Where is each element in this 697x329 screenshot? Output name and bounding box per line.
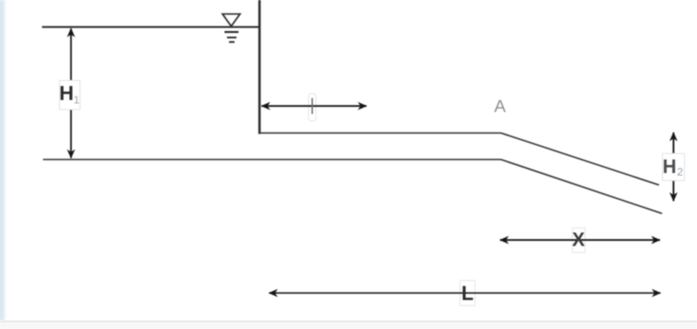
svg-text:A: A <box>494 96 506 116</box>
l label box <box>309 94 317 122</box>
svg-text:1: 1 <box>73 95 79 107</box>
bottom pale band <box>0 323 697 329</box>
l label glyph <box>311 98 313 114</box>
lower ground line <box>43 159 501 161</box>
dimension X horizontal double arrow <box>500 239 660 241</box>
sluice gate wall <box>258 0 260 134</box>
H1 label box <box>59 81 80 110</box>
dimension H2 down arrow <box>673 181 675 201</box>
H2 label box <box>663 154 685 181</box>
svg-text:2: 2 <box>677 167 683 179</box>
dimension H1 vertical double arrow <box>70 29 72 159</box>
svg-text:H: H <box>663 157 677 178</box>
dimension L horizontal double arrow <box>269 292 661 294</box>
svg-text:H: H <box>59 83 73 105</box>
water surface symbol (nabla + hatch) <box>223 14 241 42</box>
svg-text:X: X <box>572 230 585 251</box>
L label box <box>460 281 475 306</box>
left page edge blue strip <box>0 0 7 320</box>
dimension l horizontal double arrow <box>262 105 367 107</box>
upper slope line after A <box>501 133 659 185</box>
water surface line (tank free surface) <box>42 26 260 28</box>
lower slope line <box>501 160 662 214</box>
dimension H2 up arrow <box>673 133 675 154</box>
svg-text:L: L <box>461 283 473 305</box>
channel top line from gate to point A <box>260 132 502 134</box>
bottom faint separator line <box>0 321 697 323</box>
X label box <box>573 228 586 253</box>
